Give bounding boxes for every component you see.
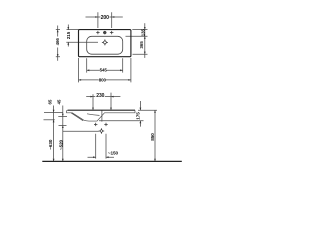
- svg-text:~630: ~630: [48, 139, 53, 149]
- svg-text:365: 365: [139, 41, 144, 49]
- svg-text:65: 65: [48, 99, 53, 104]
- svg-text:~520: ~520: [58, 139, 63, 149]
- svg-text:45: 45: [56, 99, 61, 104]
- svg-text:135: 135: [141, 29, 146, 37]
- svg-text:545: 545: [100, 68, 108, 73]
- svg-text:466: 466: [55, 38, 60, 46]
- svg-text:800: 800: [99, 77, 107, 82]
- svg-text:175: 175: [136, 112, 141, 120]
- svg-text:200: 200: [101, 15, 110, 21]
- svg-text:215: 215: [66, 31, 71, 39]
- svg-text:850: 850: [150, 133, 155, 141]
- svg-text:230: 230: [96, 93, 104, 99]
- svg-text:~150: ~150: [108, 150, 119, 155]
